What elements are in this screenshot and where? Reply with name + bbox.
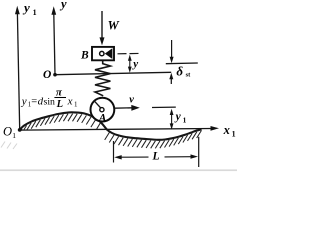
y1 dimension arrows	[170, 109, 174, 130]
svg-text:δ: δ	[176, 63, 183, 78]
page bottom edge line	[0, 169, 237, 171]
svg-text:B: B	[80, 49, 89, 61]
filled triangle inside block	[105, 48, 113, 59]
svg-text:1: 1	[232, 130, 236, 139]
label y1	[22, 0, 37, 17]
svg-text:W: W	[108, 19, 120, 33]
L dimension left tick	[113, 141, 115, 163]
svg-text:x: x	[67, 95, 73, 107]
velocity arrow v	[115, 105, 140, 111]
origin O1 dot	[18, 128, 22, 132]
svg-text:O: O	[43, 69, 51, 81]
svg-text:π: π	[56, 87, 63, 99]
L dimension right tick	[198, 137, 200, 167]
svg-text:A: A	[98, 113, 107, 125]
block centre dash line	[118, 52, 141, 54]
label O1	[3, 125, 16, 141]
wheel A	[91, 98, 115, 122]
label y1 (dimension)	[174, 111, 187, 125]
delta upper reference line	[166, 62, 198, 65]
delta up arrow	[169, 73, 173, 84]
svg-text:v: v	[129, 94, 134, 105]
L dimension line right + arrow	[165, 154, 199, 158]
svg-text:x: x	[223, 123, 230, 137]
wheel radius line	[94, 100, 101, 108]
svg-text:y: y	[131, 58, 138, 70]
svg-text:O: O	[3, 125, 12, 139]
svg-text:1: 1	[183, 116, 187, 125]
static equilibrium line from O	[55, 72, 171, 74]
weight force arrow W	[100, 11, 105, 45]
formula y1 = d sin (pi/L) x1	[21, 87, 78, 110]
svg-text:y: y	[59, 0, 67, 11]
faint hatch remnant bottom-left	[1, 142, 17, 150]
svg-text:1: 1	[74, 100, 78, 108]
svg-text:=: =	[31, 96, 37, 107]
y axis	[51, 6, 56, 75]
svg-text:y: y	[22, 0, 30, 15]
road surface wave	[20, 112, 202, 140]
spring	[95, 61, 110, 96]
svg-text:y: y	[174, 111, 182, 123]
svg-text:1: 1	[12, 131, 16, 140]
svg-text:sin: sin	[44, 96, 56, 107]
pin circle inside block	[100, 51, 104, 55]
svg-text:y: y	[21, 95, 27, 107]
svg-text:L: L	[56, 99, 63, 110]
svg-text:1: 1	[33, 8, 37, 17]
y1 dimension top line	[152, 106, 176, 108]
wheel hub	[100, 108, 104, 112]
svg-text:L: L	[152, 151, 160, 163]
block B	[92, 47, 114, 60]
origin O dot	[53, 73, 57, 77]
road hatching	[21, 114, 201, 149]
label delta_st	[176, 63, 191, 78]
label x1	[223, 123, 236, 139]
y1 axis	[15, 6, 20, 130]
x1 axis	[20, 126, 219, 131]
delta down arrow	[170, 40, 174, 63]
y dimension arrows	[128, 55, 132, 73]
svg-text:st: st	[186, 72, 192, 79]
L dimension line left + arrow	[114, 155, 148, 159]
